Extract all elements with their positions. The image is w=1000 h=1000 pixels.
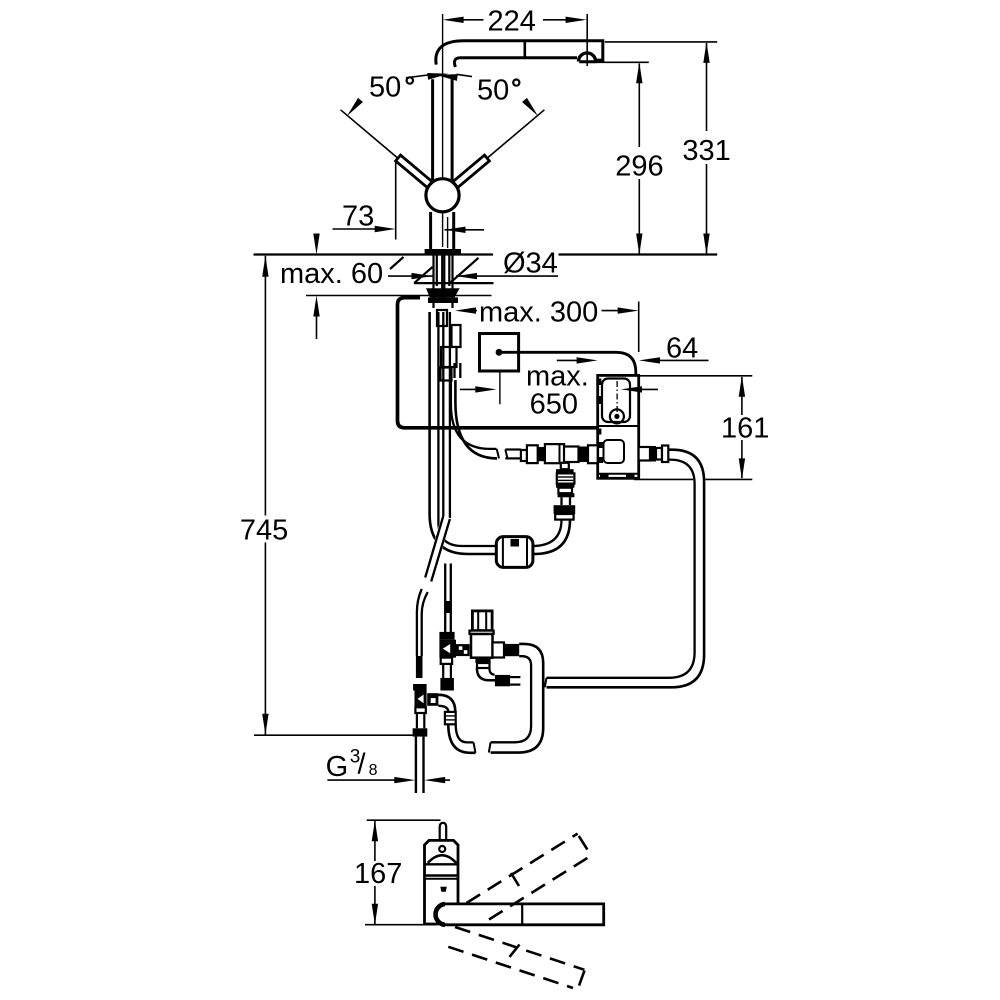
hose from control box right to bottom left — [547, 450, 705, 688]
supply tee (tee1, G 3/8) — [416, 656, 423, 678]
centerline of faucet pipe — [442, 14, 444, 247]
leader arrow into control box — [640, 388, 658, 390]
svg-text:745: 745 — [240, 515, 288, 547]
section slashes — [390, 257, 404, 269]
svg-text:G: G — [326, 751, 349, 783]
ball joint — [426, 179, 459, 212]
svg-text:max. 300: max. 300 — [479, 296, 598, 328]
svg-text:73: 73 — [342, 200, 374, 232]
dimension 167 — [367, 819, 441, 821]
extension line 331 top — [605, 41, 717, 43]
svg-text:650: 650 — [530, 389, 578, 421]
svg-text:296: 296 — [615, 151, 663, 183]
dimension 73 — [395, 162, 397, 240]
svg-text:331: 331 — [682, 135, 730, 167]
countertop line — [254, 253, 494, 255]
hose H1 down to loop — [430, 312, 498, 554]
counter underside line — [414, 282, 494, 284]
extension line 296 top — [597, 61, 649, 63]
hose from valve right down to bottom — [491, 644, 544, 753]
connector stack under shank — [437, 310, 461, 381]
svg-text:161: 161 — [721, 412, 769, 444]
sensor box (square) — [480, 334, 519, 372]
sensor box bottom leader — [499, 371, 501, 404]
spray head body — [425, 840, 459, 924]
lever handles — [396, 155, 490, 190]
hose H3 to check tee — [444, 564, 446, 633]
dimension 224 — [463, 14, 587, 66]
escutcheon base plate — [425, 249, 461, 255]
svg-text:167: 167 — [354, 858, 402, 890]
sensor cable (bold) from shank to control box — [398, 298, 598, 428]
hose from stack to ferrite loop — [533, 520, 570, 554]
mounting nut — [428, 297, 458, 303]
faucet pipe body — [433, 78, 453, 182]
svg-text:50: 50 — [477, 75, 509, 107]
sensor box cable to control box — [501, 352, 636, 375]
sensor mark — [440, 887, 447, 892]
vertical valve stack below check assembly — [561, 463, 569, 469]
swivel arm dashed up position — [467, 834, 591, 920]
big check valve — [472, 611, 492, 631]
sensor dot — [439, 846, 445, 852]
svg-text:/: / — [358, 749, 367, 781]
50 degree arc stubs with crossing arrowheads at pipe — [406, 75, 428, 78]
swivel arm solid — [445, 904, 604, 925]
spout outline — [436, 41, 603, 67]
spout seam — [523, 41, 526, 58]
stabilizer washer — [426, 288, 460, 297]
control box — [598, 375, 639, 478]
valve right port — [493, 642, 505, 657]
svg-text:224: 224 — [488, 6, 536, 38]
elbow hose from tee1 — [438, 695, 455, 712]
hose H2 down slanting to supply tee — [442, 312, 444, 516]
check valve tee (tee2) — [439, 632, 454, 640]
mounting shank below counter — [434, 256, 453, 309]
svg-text:50: 50 — [369, 72, 401, 104]
top pin — [440, 823, 447, 840]
below tee2 — [441, 658, 452, 664]
svg-text:Ø34: Ø34 — [503, 248, 558, 280]
svg-text:max. 60: max. 60 — [280, 258, 383, 290]
hose C to inline check valve — [453, 363, 455, 378]
faucet lower body — [431, 212, 454, 249]
valve bottom elbow — [475, 658, 490, 663]
below tee1 down to G3/8 thread — [415, 707, 425, 713]
swivel arm dashed down position — [448, 927, 584, 988]
inline check valve assembly — [505, 448, 521, 450]
ferrite weight on hose loop — [496, 537, 533, 568]
grip band — [425, 863, 459, 865]
svg-text:8: 8 — [369, 762, 378, 779]
dome line — [428, 855, 457, 863]
spray head dome — [579, 60, 597, 63]
50 degree lever axis lines — [341, 110, 429, 185]
